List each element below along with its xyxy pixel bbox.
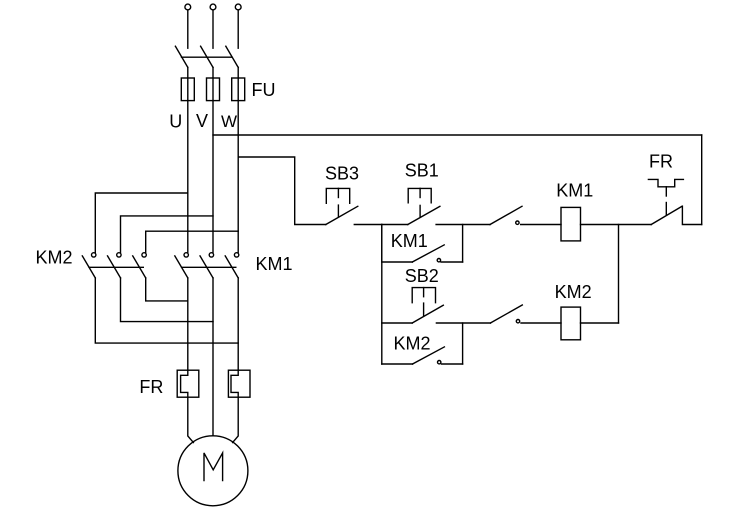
svg-text:SB2: SB2: [405, 266, 439, 286]
svg-text:SB3: SB3: [325, 163, 359, 183]
terminal L3: [235, 4, 241, 10]
fuse FU pole 2: [207, 78, 220, 101]
contactor KM2 linkage bar: [89, 266, 143, 268]
pushbutton SB3 blade: [326, 206, 358, 224]
knife switch QS linkage bar: [182, 56, 232, 58]
fuse FU pole 1: [181, 78, 194, 101]
wire W above fuse: [237, 67, 239, 78]
wire KM2 crossover top pole3 to W: [146, 231, 239, 252]
svg-text:KM1: KM1: [256, 254, 293, 274]
coil KM1: [561, 207, 581, 241]
wire V fuse to KM1 contact: [212, 101, 214, 253]
wire left branch vertical: [381, 225, 383, 365]
wire right bus between rows: [618, 225, 620, 324]
wire KM1 aux branch right: [441, 261, 463, 263]
svg-text:KM1: KM1: [391, 231, 428, 251]
contact KM2 aux blade: [413, 347, 445, 364]
wire control rail right drop: [701, 135, 703, 225]
knife switch QS pole 1 blade: [175, 46, 187, 67]
wire U KM1 to heater: [187, 278, 189, 370]
contactor KM2 pole 3 contact: [142, 253, 146, 257]
wire interlock to coil KM1: [521, 224, 561, 226]
svg-text:KM2: KM2: [394, 334, 431, 354]
wire V above fuse: [212, 67, 214, 78]
wire SB1 to interlock: [436, 224, 490, 226]
contact KM2 interlock fixed row1: [516, 221, 519, 224]
contactor KM2 pole 1 contact: [92, 253, 96, 257]
contactor KM1 linkage bar: [182, 266, 236, 268]
pushbutton SB2 actuator: [412, 288, 435, 303]
wire control branch from W: [238, 157, 326, 225]
contact KM2 interlock blade row1: [490, 206, 522, 224]
thermal relay FR heater 1: [177, 370, 199, 397]
wire row2 left: [382, 322, 412, 324]
svg-text:W: W: [221, 112, 237, 131]
contact KM1 interlock blade row2: [490, 305, 522, 323]
wire L2 drop: [212, 10, 214, 48]
wire coil KM2 to bus: [581, 322, 619, 324]
wire W KM1 to heater: [237, 278, 239, 370]
wire V KM1 to motor: [212, 278, 214, 436]
wire W fuse to KM1 contact: [237, 101, 239, 253]
contactor KM2 pole 2 contact: [117, 253, 121, 257]
svg-text:SB1: SB1: [405, 161, 439, 181]
svg-text:FU: FU: [252, 80, 276, 100]
contact KM1 aux fixed: [437, 259, 440, 262]
thermal relay FR contact right terminal: [682, 206, 701, 224]
wire KM2 crossover bottom pole3 to U: [146, 278, 188, 301]
contactor KM1 pole 2 contact: [209, 253, 213, 257]
wire L3 drop: [237, 10, 239, 48]
wire U above fuse: [187, 67, 189, 78]
contact KM2 aux fixed: [438, 361, 441, 364]
pushbutton SB2 blade: [412, 305, 443, 323]
thermal relay FR link dashes: [665, 187, 667, 196]
wire L1 drop: [187, 10, 189, 48]
wire coil KM1 to FR contact: [581, 224, 652, 226]
svg-text:FR: FR: [649, 151, 673, 171]
contactor KM1 pole 3 contact: [234, 253, 238, 257]
wire SB2 to interlock row2: [436, 322, 490, 324]
thermal relay FR element symbol: [648, 179, 683, 186]
wire KM1 aux branch left: [382, 225, 413, 263]
pushbutton SB1 actuator: [408, 188, 431, 202]
motor M circle: [178, 436, 248, 506]
svg-text:U: U: [169, 112, 182, 132]
thermal relay FR contact blade: [651, 206, 682, 224]
knife switch QS pole 2 blade: [201, 46, 213, 67]
wire interlock to coil KM2: [521, 322, 561, 324]
contact KM1 interlock fixed row2: [516, 320, 519, 323]
knife switch QS pole 3 blade: [226, 46, 238, 67]
wire KM2 crossover top pole1 to U: [95, 193, 188, 253]
svg-text:KM2: KM2: [555, 282, 592, 302]
wire KM2 crossover bottom pole1 to W: [95, 278, 238, 343]
pushbutton SB3 actuator: [326, 188, 349, 203]
fuse FU pole 3: [232, 78, 245, 101]
svg-text:V: V: [196, 111, 208, 131]
wire control rail top from V: [213, 134, 702, 136]
wire KM2 aux branch right: [442, 363, 463, 365]
coil KM2: [561, 307, 581, 340]
contact KM1 aux blade: [412, 245, 444, 262]
wire W heater to motor: [233, 397, 239, 442]
svg-text:FR: FR: [139, 377, 163, 397]
pushbutton SB1 blade: [408, 206, 440, 224]
wire U fuse to KM1 contact: [187, 101, 189, 253]
wire SB3 to SB1: [354, 224, 408, 226]
wire KM2 crossover top pole2 to V: [121, 216, 214, 253]
svg-text:KM1: KM1: [556, 180, 593, 200]
contactor KM1 pole 1 contact: [184, 253, 188, 257]
wire KM2 aux branch bottom: [382, 363, 413, 365]
wire U heater to motor: [188, 397, 194, 442]
terminal L1: [185, 4, 191, 10]
wire KM2 crossover bottom pole2 to V: [121, 278, 214, 322]
thermal relay FR heater 2: [228, 370, 250, 397]
svg-text:KM2: KM2: [36, 248, 73, 268]
motor M letter: [204, 453, 223, 481]
terminal L2: [210, 4, 216, 10]
